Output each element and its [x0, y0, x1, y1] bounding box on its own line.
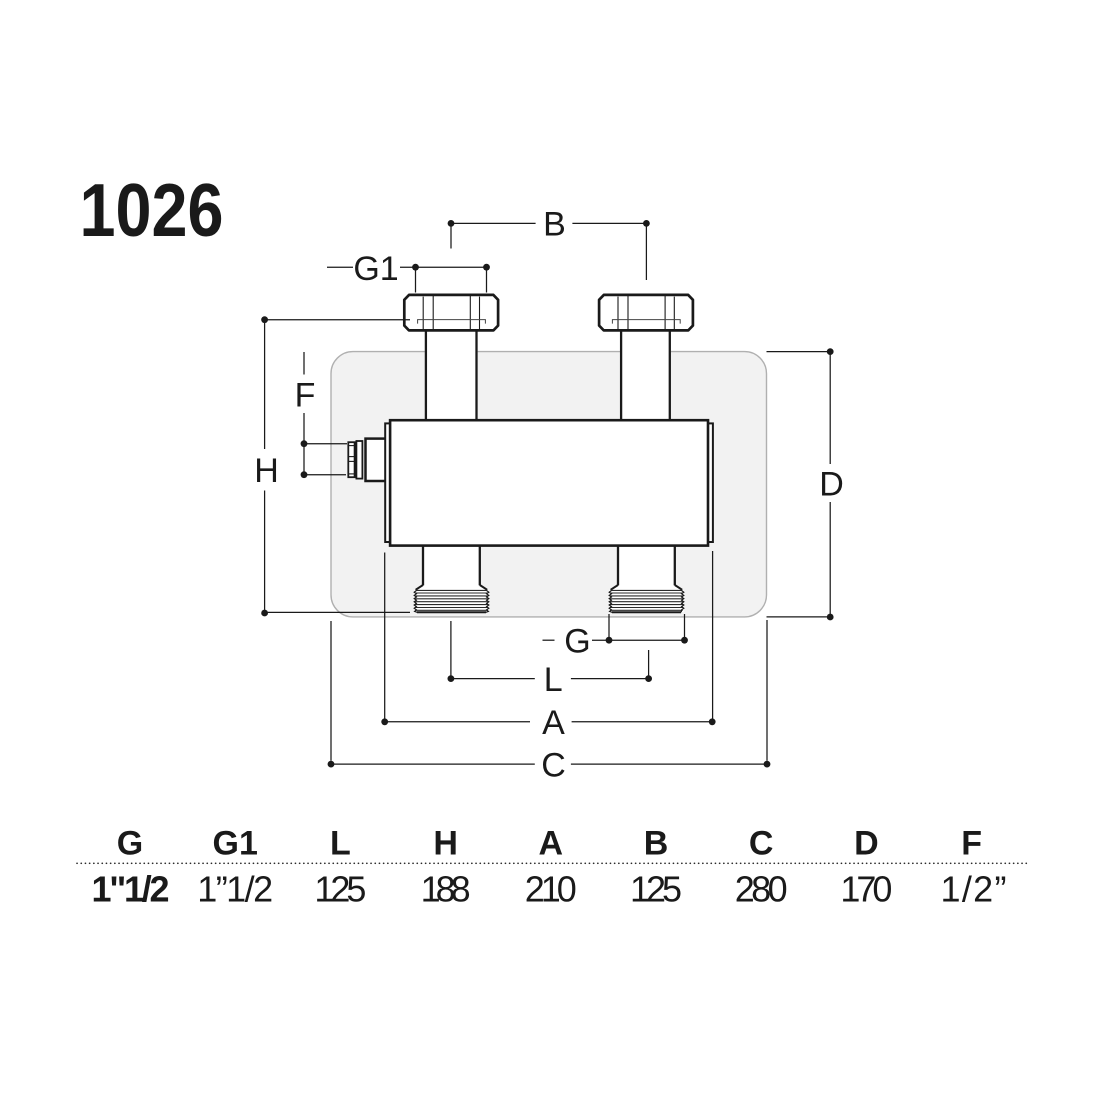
dimension A: [385, 551, 713, 722]
svg-text:A: A: [542, 704, 565, 742]
svg-text:L: L: [544, 661, 563, 699]
dimension C: [331, 620, 767, 764]
bottom pipe right: [609, 545, 684, 612]
body end cap right: [708, 423, 713, 542]
svg-text:1"1/2: 1"1/2: [92, 869, 170, 910]
svg-text:G1: G1: [353, 250, 398, 288]
dimension L: [451, 621, 649, 679]
svg-text:B: B: [543, 206, 566, 244]
dimension B: [451, 223, 646, 280]
body: [390, 420, 708, 545]
svg-text:H: H: [254, 452, 279, 490]
svg-text:1”1/2: 1”1/2: [197, 869, 273, 910]
bottom thread left: [414, 590, 489, 612]
svg-text:188: 188: [421, 869, 471, 910]
svg-text:G: G: [564, 622, 590, 660]
svg-text:C: C: [749, 825, 774, 863]
svg-text:G: G: [117, 825, 143, 863]
svg-text:280: 280: [735, 869, 788, 910]
svg-text:1026: 1026: [80, 168, 224, 252]
mounting plate (gray rounded rectangle): [331, 352, 767, 617]
svg-text:170: 170: [840, 869, 892, 910]
table value row: [92, 869, 1007, 910]
svg-text:210: 210: [525, 869, 577, 910]
svg-text:125: 125: [314, 869, 366, 910]
bottom thread right: [609, 590, 684, 612]
table header row: [117, 825, 982, 863]
svg-text:H: H: [433, 825, 458, 863]
top pipe left: [425, 329, 478, 421]
svg-text:B: B: [644, 825, 669, 863]
svg-text:D: D: [854, 825, 879, 863]
dimension D: [767, 352, 831, 617]
svg-text:G1: G1: [213, 825, 258, 863]
top pipe right: [620, 329, 671, 421]
svg-text:F: F: [961, 825, 982, 863]
body end cap left: [385, 423, 390, 542]
side fitting plug: [348, 442, 354, 477]
dimension F: [304, 352, 347, 475]
union nut left: [404, 295, 498, 331]
svg-text:C: C: [541, 746, 566, 784]
bottom pipe left: [414, 545, 489, 612]
side fitting ring: [356, 441, 362, 479]
svg-text:F: F: [295, 377, 316, 415]
svg-text:L: L: [330, 825, 351, 863]
union nut right: [599, 295, 693, 331]
table dotted rule: [77, 862, 1029, 864]
svg-text:1/2”: 1/2”: [941, 869, 1007, 910]
side fitting boss: [366, 439, 386, 481]
svg-text:D: D: [819, 466, 844, 504]
dimension G1: [327, 267, 487, 292]
dimension H: [265, 320, 410, 613]
svg-text:125: 125: [630, 869, 682, 910]
dimension G: [543, 614, 685, 640]
svg-text:A: A: [539, 825, 564, 863]
